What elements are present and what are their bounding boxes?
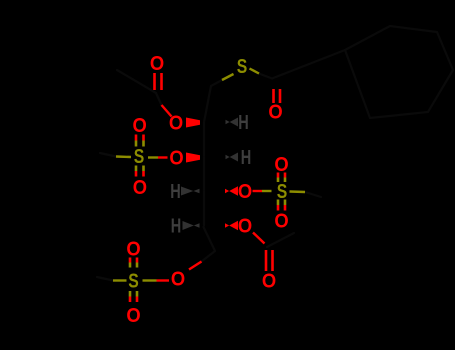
svg-text:S: S bbox=[128, 271, 139, 293]
wire thioester C - ring bbox=[272, 50, 345, 79]
mesylate1 S=O bottom double bond bbox=[136, 166, 144, 177]
svg-text:O: O bbox=[262, 271, 276, 293]
wire acetate2 methyl bbox=[267, 233, 294, 247]
svg-text:O: O bbox=[133, 177, 147, 199]
wire C1-S olive half bbox=[222, 74, 234, 80]
wire mesylate2 methyl olive half bbox=[290, 190, 306, 193]
mesylate1 S=O top double bond bbox=[136, 135, 144, 147]
mesylate2 S=O top double bond bbox=[278, 173, 285, 183]
wire mesylate1 methyl dark half bbox=[100, 153, 116, 157]
wire C4-C5 backbone bond bbox=[203, 191, 205, 226]
wedge C4-O red bbox=[225, 186, 238, 196]
svg-text:H: H bbox=[238, 112, 249, 134]
wire C1-S dark half bbox=[211, 80, 222, 86]
wire acetate1 C-O(ester) dark half bbox=[156, 93, 162, 105]
svg-text:O: O bbox=[126, 239, 140, 261]
wire mesylate3 O-S red half bbox=[157, 279, 170, 281]
wedge C2-O red bbox=[186, 118, 200, 128]
wire acetate2 O-C red half bbox=[253, 233, 265, 244]
wire S-C(thioester) olive half bbox=[250, 69, 260, 74]
mesylate3 S=O top double bond bbox=[130, 258, 137, 268]
wire C6-O(mesylate) dark half bbox=[202, 251, 216, 262]
thioester C=O double bond bbox=[274, 89, 281, 103]
wire C1-C2 backbone bond bbox=[204, 86, 211, 122]
svg-text:O: O bbox=[238, 181, 252, 203]
svg-text:H: H bbox=[171, 216, 182, 238]
wire mesylate3 methyl dark half bbox=[97, 277, 113, 281]
wedge C2-H gray bbox=[226, 118, 239, 127]
wire mesylate2 O-S olive half bbox=[262, 190, 272, 192]
wire acetate1 methyl bbox=[117, 70, 156, 93]
wedge C3-O red bbox=[186, 153, 200, 163]
svg-text:S: S bbox=[237, 56, 248, 78]
wire S-C(thioester) dark half bbox=[259, 74, 272, 79]
wire mesylate1 methyl olive half bbox=[116, 155, 131, 158]
svg-text:O: O bbox=[268, 102, 282, 124]
svg-text:O: O bbox=[126, 305, 140, 327]
svg-text:O: O bbox=[150, 53, 164, 75]
wire acetate1 C-O(ester) red half bbox=[162, 105, 172, 117]
wire C3-C4 backbone bond bbox=[203, 157, 205, 191]
ring cyclohexyl bbox=[345, 26, 453, 118]
svg-text:O: O bbox=[133, 115, 147, 137]
svg-text:O: O bbox=[169, 148, 183, 170]
wire mesylate2 methyl dark half bbox=[305, 192, 321, 197]
wire mesylate3 O-S olive half bbox=[143, 279, 157, 281]
wedge C3-H gray bbox=[226, 153, 239, 162]
wedge C5-H gray bbox=[183, 221, 200, 230]
wire mesylate1 S-O(ester) red half bbox=[158, 156, 168, 158]
wire mesylate1 S-O(ester) olive half bbox=[148, 156, 158, 158]
wire C2-C3 backbone bond bbox=[203, 122, 205, 157]
svg-text:O: O bbox=[169, 113, 183, 135]
mesylate3 S=O bottom double bond bbox=[130, 291, 137, 302]
wedge C5-O red bbox=[225, 221, 238, 231]
wire mesylate3 O(ester)-C6 red half bbox=[189, 262, 202, 270]
wire mesylate3 methyl olive half bbox=[113, 279, 127, 281]
wire C5-C6 backbone bond bbox=[204, 227, 216, 251]
svg-text:O: O bbox=[238, 216, 252, 238]
mesylate2 S=O bottom double bond bbox=[278, 200, 285, 211]
wire mesylate2 O-S red half bbox=[253, 190, 263, 192]
acetate2 C=O double bond bbox=[266, 250, 273, 271]
svg-text:H: H bbox=[241, 147, 252, 169]
svg-text:O: O bbox=[274, 154, 288, 176]
svg-text:O: O bbox=[171, 269, 185, 291]
wedge C4-H gray bbox=[181, 187, 200, 196]
svg-text:O: O bbox=[274, 211, 288, 233]
svg-text:S: S bbox=[134, 146, 145, 168]
svg-text:H: H bbox=[170, 181, 181, 203]
acetate1 C=O double bond bbox=[155, 73, 162, 90]
